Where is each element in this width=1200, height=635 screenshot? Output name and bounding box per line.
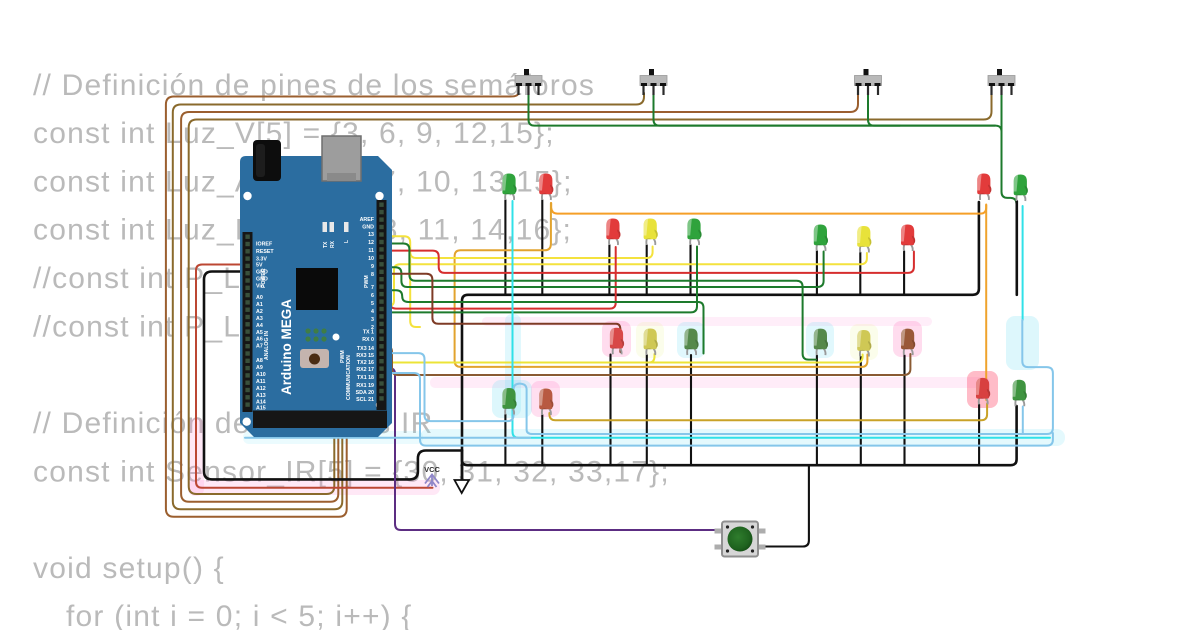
svg-text:6: 6 — [371, 293, 374, 299]
svg-text:A7: A7 — [256, 344, 263, 350]
svg-text:GND: GND — [362, 225, 374, 231]
svg-text:GND: GND — [256, 277, 268, 283]
svg-text:const int Luz_V[5] = {3, 6, 9,: const int Luz_V[5] = {3, 6, 9, 12,15}; — [33, 117, 555, 150]
svg-text:A2: A2 — [256, 309, 263, 315]
svg-text:A8: A8 — [256, 358, 263, 364]
svg-text:L: L — [344, 240, 350, 243]
svg-text:5V: 5V — [256, 263, 263, 269]
svg-text:A5: A5 — [256, 330, 263, 336]
svg-text:Arduino MEGA: Arduino MEGA — [279, 299, 294, 395]
svg-text:A12: A12 — [256, 386, 266, 392]
svg-text:TX 1: TX 1 — [363, 330, 374, 336]
svg-text:TX: TX — [323, 241, 329, 248]
svg-text:GND: GND — [256, 270, 268, 276]
svg-text:RX: RX — [330, 240, 336, 248]
svg-text:5: 5 — [371, 301, 374, 307]
svg-text:TX3 14: TX3 14 — [357, 346, 374, 352]
svg-text:AREF: AREF — [360, 217, 375, 223]
svg-text:9: 9 — [371, 264, 374, 270]
svg-text:3: 3 — [371, 317, 374, 323]
svg-text:A4: A4 — [256, 323, 263, 329]
svg-text:8: 8 — [371, 272, 374, 278]
svg-text:A6: A6 — [256, 337, 263, 343]
svg-text:7: 7 — [371, 285, 374, 291]
svg-text:void setup() {: void setup() { — [33, 552, 225, 585]
svg-text:SCL 21: SCL 21 — [356, 397, 374, 403]
svg-text:PWM: PWM — [364, 275, 370, 288]
svg-text:TX1 18: TX1 18 — [357, 375, 374, 381]
svg-text:RX3 15: RX3 15 — [356, 353, 374, 359]
svg-text:A9: A9 — [256, 365, 263, 371]
svg-text:SDA 20: SDA 20 — [356, 390, 374, 396]
svg-text:for (int i = 0; i < 5; i++) {: for (int i = 0; i < 5; i++) { — [66, 600, 413, 630]
svg-text:VCC: VCC — [424, 465, 440, 474]
svg-text:A0: A0 — [256, 295, 263, 301]
svg-text:IOREF: IOREF — [256, 242, 273, 248]
svg-text:TX2 16: TX2 16 — [357, 360, 374, 366]
svg-text:A13: A13 — [256, 393, 266, 399]
svg-text:RX2 17: RX2 17 — [356, 367, 374, 373]
svg-text:10: 10 — [368, 256, 374, 262]
svg-text:4: 4 — [371, 309, 374, 315]
svg-text:12: 12 — [368, 240, 374, 246]
svg-text:COMMUNICATION: COMMUNICATION — [346, 355, 352, 400]
svg-text:A15: A15 — [256, 406, 266, 412]
svg-text:A10: A10 — [256, 372, 266, 378]
svg-text:ANALOG IN: ANALOG IN — [264, 331, 270, 360]
svg-text:RX1 19: RX1 19 — [356, 383, 374, 389]
svg-text:RX 0: RX 0 — [362, 337, 374, 343]
svg-text:A1: A1 — [256, 302, 263, 308]
svg-text:Vin: Vin — [256, 284, 264, 290]
svg-text:11: 11 — [368, 248, 374, 254]
svg-text:A3: A3 — [256, 316, 263, 322]
svg-text:A11: A11 — [256, 379, 265, 385]
svg-text:13: 13 — [368, 232, 374, 238]
svg-text:RESET: RESET — [256, 249, 274, 255]
